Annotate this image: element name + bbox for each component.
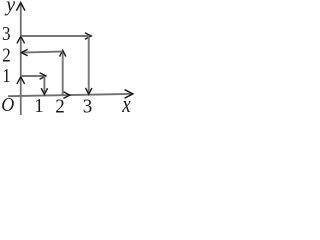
- arrow down from (1,1) to (1,0): [41, 76, 47, 95]
- arrow up y-axis from O to (0,1): [17, 77, 25, 84]
- arrow down from (3,3) to (3,0): [86, 36, 92, 94]
- svg-text:y: y: [4, 0, 15, 16]
- svg-text:x: x: [121, 91, 131, 118]
- arrow right along x-axis to (2,0): [63, 92, 69, 99]
- svg-text:1: 1: [34, 96, 43, 118]
- y-axis: [16, 3, 25, 115]
- arrow right from (0,3) to (3,3): [21, 33, 92, 39]
- svg-text:2: 2: [2, 44, 11, 67]
- svg-text:O: O: [1, 94, 14, 116]
- arrow right from (0,1) to (1,1): [21, 73, 46, 79]
- x-axis: [8, 90, 133, 99]
- svg-text:3: 3: [83, 96, 92, 118]
- svg-text:1: 1: [2, 65, 11, 88]
- svg-text:2: 2: [55, 96, 64, 118]
- arrow left from (2,2) to (0,2): [21, 49, 62, 55]
- arrow up from (2,0) to (2,2): [60, 50, 66, 94]
- arrow up y-axis from (0,2) to (0,3): [17, 36, 25, 43]
- svg-text:3: 3: [2, 23, 11, 46]
